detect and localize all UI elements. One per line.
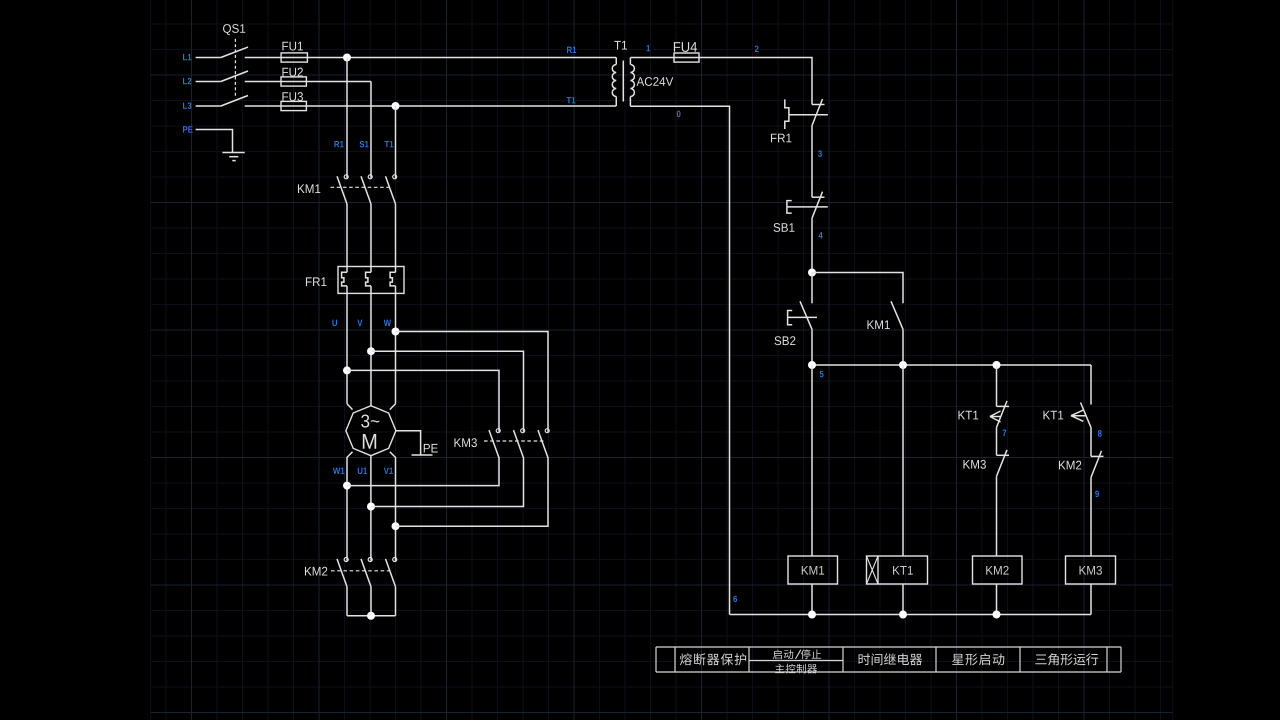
motor M octagon	[346, 406, 396, 456]
label KM2 NC	[1059, 461, 1066, 470]
label KT1 NC	[958, 411, 965, 420]
wire U1 tap to KM3 pole2	[371, 457, 524, 506]
coil KM3 text	[1080, 566, 1087, 575]
wire W drop	[395, 286, 397, 404]
label FU1	[282, 42, 288, 51]
label KM3 NC	[963, 460, 970, 469]
wire L3 feed	[196, 105, 221, 107]
label net 4	[819, 232, 823, 238]
contactor KM1 pole 3	[393, 175, 397, 179]
label net 6	[733, 596, 737, 603]
motor text M	[363, 434, 376, 449]
wire L2 feed	[196, 81, 221, 83]
aux contact KM3 NC tick	[997, 454, 1010, 456]
wire KM2 pole1 down	[346, 587, 348, 616]
wire U drop	[346, 286, 348, 404]
wire L3 to FU3	[245, 105, 617, 107]
label L2	[183, 78, 187, 84]
contactor KM1 pole 2	[368, 175, 372, 179]
wire T1 drop	[395, 106, 397, 175]
table cell main-controller	[775, 664, 784, 673]
wire to KT1 coil	[902, 365, 904, 556]
wire branch c top	[996, 365, 998, 406]
wire V1 out of motor	[390, 452, 396, 558]
label KM1 aux	[867, 320, 874, 329]
wire SB2 down	[811, 329, 813, 365]
QS1 blade L2	[221, 71, 248, 82]
label net 5	[820, 371, 824, 377]
coil KM3 box	[1066, 556, 1116, 584]
timer contact KT1 NC arrow	[990, 411, 1001, 422]
pushbutton SB2 actuator	[788, 311, 817, 325]
node U1 tap	[367, 503, 375, 511]
table cell star-start	[952, 654, 964, 665]
table cell delta-run	[1035, 655, 1046, 665]
label R1 net	[567, 47, 572, 53]
node V1 tap	[392, 522, 400, 530]
label V1	[384, 468, 389, 474]
pushbutton SB1 actuator	[787, 201, 828, 214]
wire U into motor	[347, 404, 353, 410]
node L3-T1	[392, 102, 400, 110]
wire L2 to FU2	[245, 81, 371, 83]
coil KM2 box	[973, 556, 1023, 584]
coil KT1 box	[867, 556, 928, 584]
motor text 3~	[361, 414, 369, 427]
label net 7	[1003, 430, 1007, 436]
node 5 junction c	[993, 361, 1001, 369]
overload contact FR1 tick	[812, 104, 825, 106]
star point bus	[347, 615, 396, 617]
overload FR1 element 3	[390, 272, 395, 286]
label S1	[360, 141, 365, 148]
contactor KM3 label	[454, 438, 461, 447]
overload FR1 box	[338, 267, 404, 294]
timer contact KT1 NO blade	[1081, 403, 1092, 428]
label L3	[183, 102, 187, 108]
node 5 line	[812, 364, 1091, 366]
contactor KM3 pole 2	[521, 429, 525, 433]
wire to KM2 coil	[996, 476, 998, 556]
contactor KM2 link	[331, 570, 392, 572]
fuse FU4	[674, 53, 699, 62]
label net 2	[755, 46, 759, 52]
pushbutton SB1 tick	[812, 196, 825, 198]
label U	[332, 320, 337, 326]
aux contact KM3 NC blade	[997, 450, 1008, 477]
contactor KM3 pole 1	[496, 429, 500, 433]
label net 1	[646, 45, 650, 51]
aux contact KM2 NC tick	[1091, 455, 1104, 457]
fuse FU1	[281, 53, 307, 62]
overload FR1 label	[306, 277, 312, 286]
label net 3	[818, 150, 822, 157]
pushbutton SB1 blade	[812, 192, 823, 219]
label SB2	[775, 336, 782, 345]
table cell fuse-protection	[680, 653, 692, 665]
coil KM1 box	[788, 556, 838, 584]
fuse FU3	[281, 101, 306, 110]
disconnect switch QS1 label	[223, 24, 231, 35]
label SB1	[774, 223, 781, 232]
label U1	[358, 468, 363, 474]
wire U1 out of motor	[370, 456, 372, 558]
wire V tap to KM3 pole2	[371, 351, 524, 428]
bus junction KT1	[899, 611, 907, 619]
contactor KM2 pole 1	[344, 558, 348, 562]
bus junction KM1	[808, 611, 816, 619]
disconnect switch QS1 link	[234, 39, 236, 98]
label W	[384, 320, 391, 326]
pushbutton SB2 stem	[811, 273, 813, 304]
wire KM3 coil to bus	[1090, 584, 1092, 615]
node L1-R1	[343, 54, 351, 62]
wire W tap to KM3 pole3	[396, 332, 549, 429]
wire KT1 coil to bus	[902, 584, 904, 615]
contactor KM3 link	[484, 440, 544, 442]
wire to KM1 coil	[811, 365, 813, 556]
timer contact KT1 NO arrow	[1071, 410, 1086, 421]
wire KM1 pole3 down	[395, 204, 397, 272]
aux contact KM1 blade	[891, 301, 903, 329]
wire L1 feed	[196, 57, 221, 59]
coil KM2 text	[986, 566, 993, 575]
wire PE	[196, 130, 233, 153]
wire branch to KM1 aux	[812, 273, 903, 304]
label motor PE	[424, 444, 430, 453]
overload FR1 element 1	[342, 272, 347, 286]
wire to KM3 coil	[1090, 477, 1092, 556]
label R1	[334, 141, 339, 147]
wire W1 out of motor	[347, 452, 353, 558]
timer contact KT1 NC blade	[997, 401, 1008, 428]
overload FR1 element 2	[366, 272, 371, 286]
transformer T1 core	[622, 61, 624, 102]
contactor KM2 pole 2	[368, 558, 372, 562]
bottom bus	[730, 614, 1092, 616]
motor PE wire	[396, 431, 421, 455]
aux contact KM2 NC blade	[1091, 451, 1102, 478]
wire 8	[1090, 428, 1092, 457]
wire secondary top	[630, 57, 674, 59]
star point node	[367, 612, 375, 620]
wire V1 tap to KM3 pole3	[396, 457, 549, 526]
wire U tap to KM3 pole1	[347, 370, 499, 428]
fuse FU2	[281, 77, 306, 86]
function table frame	[656, 646, 1121, 648]
node V tap	[367, 347, 375, 355]
bus junction KM2	[993, 611, 1001, 619]
node 4 junction	[808, 269, 816, 277]
table cell start/stop	[773, 649, 782, 659]
QS1 blade L3	[221, 96, 248, 107]
label FU3	[282, 92, 288, 101]
wire KM1 aux down	[902, 329, 904, 365]
wire L1 to FU1	[245, 57, 617, 59]
timer contact KT1 NC tick	[997, 405, 1010, 407]
label net 0	[677, 111, 681, 118]
contactor KM1 link	[331, 186, 392, 188]
label AC24V	[637, 77, 645, 86]
label FR1 contact	[771, 134, 777, 143]
label FU2	[282, 68, 288, 77]
transformer T1 primary	[612, 58, 616, 107]
wire S1 drop	[370, 82, 372, 175]
label net 9	[1095, 491, 1099, 498]
wire KM2 coil to bus	[996, 584, 998, 615]
wire net 0	[630, 106, 729, 614]
node 5 junction a	[808, 361, 816, 369]
label KT1 NO	[1043, 411, 1050, 420]
wire KM1 coil to bus	[811, 584, 813, 615]
table cell time-relay	[859, 653, 870, 665]
contactor KM2 label	[305, 567, 312, 576]
ground symbol PE	[222, 152, 244, 154]
node W1 tap	[343, 482, 351, 490]
label T1 net	[567, 97, 572, 103]
wire R1 drop	[346, 58, 348, 175]
wire 4	[811, 218, 813, 272]
label PE	[183, 126, 187, 132]
coil KM1 text	[802, 566, 809, 575]
wire W1 tap to KM3 pole1	[347, 457, 499, 485]
transformer T1 label	[614, 41, 621, 50]
wire KM2 pole2 down	[370, 587, 372, 616]
label net 8	[1098, 430, 1102, 437]
wire net 2	[674, 58, 812, 105]
node 5 junction b	[899, 361, 907, 369]
wire KM1 pole2 down	[370, 204, 372, 272]
contactor KM2 pole 3	[393, 558, 397, 562]
label W1	[333, 468, 340, 474]
motor PE bar	[412, 454, 433, 456]
label L1	[183, 54, 187, 60]
label V	[357, 320, 362, 326]
overload contact FR1 actuator	[785, 99, 828, 129]
wire KM2 pole3 down	[395, 587, 397, 616]
node W tap	[392, 328, 400, 336]
pushbutton SB2 blade	[800, 301, 812, 329]
wire KM1 pole1 down	[346, 204, 348, 272]
wire branch d top	[1090, 365, 1092, 405]
wire 7	[996, 427, 998, 455]
transformer T1 secondary	[630, 58, 634, 107]
label T1	[385, 141, 390, 147]
overload contact FR1 blade	[812, 99, 823, 126]
wire 3	[811, 126, 813, 198]
label FU4	[674, 42, 680, 52]
contactor KM1 pole 1	[344, 175, 348, 179]
wire V drop	[370, 286, 372, 406]
contactor KM3 pole 3	[545, 429, 549, 433]
node U tap	[343, 366, 351, 374]
coil KT1 text	[893, 566, 900, 575]
QS1 blade L1	[221, 47, 248, 57]
wire W into motor	[390, 404, 396, 410]
contactor KM1 label	[298, 184, 305, 193]
